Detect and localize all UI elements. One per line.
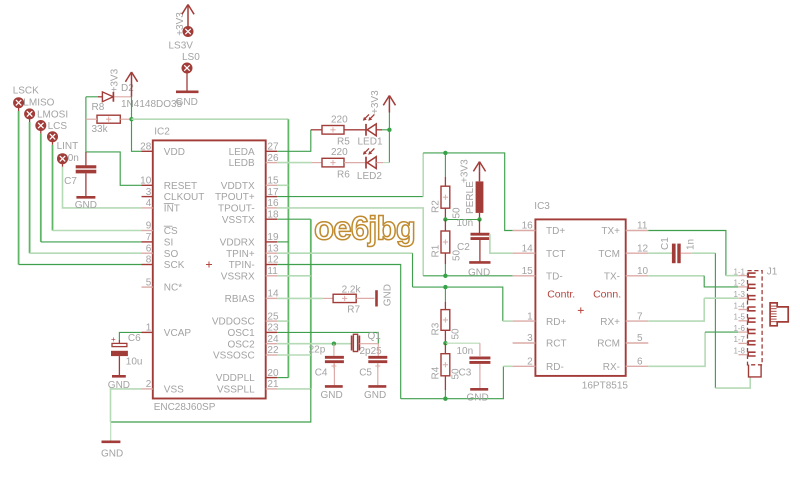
- svg-text:RX+: RX+: [600, 317, 620, 328]
- svg-text:GND: GND: [108, 380, 130, 391]
- wire to main ground: [110, 422, 112, 441]
- svg-text:LS0: LS0: [182, 52, 200, 63]
- svg-text:LEDB: LEDB: [229, 158, 255, 169]
- inductor PERLE ferrite bead: [465, 181, 483, 220]
- svg-text:+: +: [111, 335, 116, 344]
- IC2 pin 5 NC*: [142, 277, 183, 293]
- wire VDDPLL pin20 to rail: [277, 377, 288, 379]
- svg-text:1: 1: [527, 311, 533, 322]
- svg-text:VSSTX: VSSTX: [222, 215, 255, 226]
- node LS0: [182, 52, 200, 73]
- resistor R8 33k: [86, 102, 132, 135]
- resistor R3 50: [431, 287, 462, 343]
- IC2 pin 13 TPIN+: [226, 243, 279, 259]
- svg-text:C5: C5: [359, 368, 372, 379]
- svg-text:VDD: VDD: [164, 147, 185, 158]
- svg-text:GND: GND: [101, 449, 123, 460]
- svg-text:GND: GND: [383, 284, 394, 306]
- svg-text:14: 14: [522, 243, 534, 254]
- wire TPIN+ pin13 to RD+: [277, 253, 513, 321]
- junction C4/OSC2: [332, 342, 336, 346]
- svg-text:VDDRX: VDDRX: [220, 238, 255, 249]
- node LINT: [57, 141, 79, 152]
- svg-text:4: 4: [146, 198, 152, 209]
- svg-text:R5: R5: [337, 137, 350, 148]
- svg-text:5: 5: [637, 333, 643, 344]
- svg-text:IC3: IC3: [534, 201, 550, 212]
- svg-text:10u: 10u: [126, 357, 143, 368]
- svg-text:10n: 10n: [457, 346, 474, 357]
- wire OSC2 pin24: [277, 343, 352, 345]
- svg-text:VSSPLL: VSSPLL: [217, 385, 255, 396]
- IC2 pin 1 VCAP: [142, 323, 192, 339]
- connector J1 pin 1-7: [733, 335, 755, 345]
- connector J1 pin 1-2: [733, 279, 755, 289]
- wire RBIAS pin14 to R7: [277, 297, 323, 299]
- svg-text:TCM: TCM: [598, 249, 620, 260]
- node LSCK: [13, 86, 39, 112]
- ground C3: [467, 389, 489, 403]
- IC2 pin 4 INT: [142, 198, 180, 214]
- IC3 pin 6 RX-: [603, 357, 649, 374]
- connector J1 pin 1-1: [733, 267, 755, 277]
- capacitor C7 value 100n: [57, 153, 79, 164]
- wire VDDTX pin15 to rail: [277, 184, 288, 186]
- wire RX- pin6 to J1 1-6: [648, 332, 738, 366]
- connector J1 pin 1-6: [733, 324, 755, 334]
- connector J1 pin 1-8: [733, 347, 755, 357]
- svg-text:RX-: RX-: [603, 362, 620, 373]
- svg-text:10: 10: [637, 266, 649, 277]
- svg-text:C1: C1: [660, 237, 671, 250]
- junction LED1 anode: [387, 128, 391, 132]
- capacitor C4 22p: [309, 344, 344, 386]
- wire LED2 to +3V3: [383, 162, 389, 164]
- IC3 pin 2 RD-: [513, 357, 564, 374]
- IC3 pin 7 RX+: [600, 311, 648, 328]
- junction R3/R4/C3: [443, 341, 447, 345]
- svg-text:11: 11: [267, 266, 278, 277]
- node LMISO: [23, 98, 54, 123]
- connector J1: [748, 267, 778, 365]
- wire LINT to INT pin 4: [63, 167, 142, 208]
- svg-text:11: 11: [637, 221, 648, 232]
- junction R1 bottom: [443, 274, 447, 278]
- svg-text:LS3V: LS3V: [169, 41, 194, 52]
- svg-text:SCK: SCK: [164, 260, 185, 271]
- svg-text:C6: C6: [128, 333, 141, 344]
- wire +3V3 down to LED2: [388, 130, 390, 163]
- IC2 pin 14 RBIAS: [225, 289, 279, 305]
- IC2 pin 15 VDDTX: [221, 176, 279, 192]
- svg-text:5: 5: [146, 277, 152, 288]
- capacitor C3 10n: [457, 343, 491, 388]
- svg-text:6: 6: [637, 357, 643, 368]
- IC2 pin 7 SI: [142, 232, 174, 248]
- svg-text:6: 6: [146, 243, 152, 254]
- connector J1 pin 1-4: [733, 301, 755, 311]
- node LCS: [48, 121, 68, 145]
- svg-text:TCT: TCT: [546, 249, 565, 260]
- svg-text:VSSRX: VSSRX: [221, 271, 255, 282]
- diode D2 1N4148DO35: [86, 83, 183, 110]
- ground C7: [75, 197, 97, 211]
- IC2 pin 10 RESET: [140, 176, 197, 192]
- svg-text:+3V3: +3V3: [460, 159, 471, 183]
- IC2 pin 24 OSC2: [227, 334, 278, 350]
- ground C2: [468, 262, 491, 278]
- svg-text:TX-: TX-: [604, 272, 620, 283]
- svg-text:C3: C3: [459, 368, 472, 379]
- svg-text:PERLE: PERLE: [465, 181, 476, 214]
- wire TPOUT+ pin17: [277, 153, 513, 231]
- svg-text:ENC28J60SP: ENC28J60SP: [154, 402, 216, 413]
- svg-text:R7: R7: [347, 305, 360, 316]
- IC3 pin 1 RD+: [513, 311, 567, 328]
- ground C6: [108, 376, 130, 391]
- svg-text:VCAP: VCAP: [164, 328, 192, 339]
- svg-text:CS: CS: [164, 226, 178, 237]
- svg-text:NC*: NC*: [164, 283, 182, 294]
- IC3 pin 15 TD-: [513, 266, 563, 283]
- ground C5: [364, 386, 386, 401]
- svg-text:GND: GND: [468, 267, 490, 278]
- svg-text:RD+: RD+: [546, 317, 566, 328]
- svg-text:LINT: LINT: [57, 141, 79, 152]
- IC3 pin 10 TX-: [604, 266, 649, 283]
- svg-text:10n: 10n: [457, 218, 474, 229]
- power +3V3 arrow (D2): [110, 68, 138, 96]
- connector J1 pin 1-3: [733, 290, 755, 300]
- svg-text:28: 28: [140, 142, 152, 153]
- svg-text:TX+: TX+: [601, 226, 620, 237]
- wire VSSPLL pin21: [277, 388, 311, 390]
- svg-text:VDDPLL: VDDPLL: [216, 373, 255, 384]
- svg-text:220: 220: [331, 115, 348, 126]
- transformer IC3 16PT8515 box: [534, 201, 628, 392]
- resistor R7 2.2k: [323, 284, 375, 315]
- svg-text:SI: SI: [164, 238, 173, 249]
- wire VCAP pin1 to C6: [119, 332, 141, 340]
- wire LSCK to SCK pin 8: [19, 111, 142, 265]
- svg-text:50: 50: [451, 328, 462, 340]
- svg-text:RCT: RCT: [546, 339, 567, 350]
- IC3 pin 11 TX+: [601, 221, 648, 238]
- svg-text:1n: 1n: [686, 239, 697, 250]
- svg-text:CLKOUT: CLKOUT: [164, 192, 205, 203]
- wire R2 bottom to ferrite: [445, 219, 479, 221]
- wire LMISO to SO pin 6: [30, 122, 142, 253]
- capacitor C6 10u: [111, 333, 142, 375]
- svg-text:LSCK: LSCK: [13, 86, 39, 97]
- IC2 pin 8 SCK: [142, 255, 185, 271]
- IC2 pin 17 TPOUT+: [215, 187, 279, 203]
- IC2 pin 22 VSSOSC: [213, 345, 279, 361]
- wire LEDA pin27 to R5: [277, 130, 311, 152]
- capacitor C2 10n: [457, 218, 490, 262]
- svg-text:TPIN-: TPIN-: [229, 260, 255, 271]
- svg-text:15: 15: [522, 266, 534, 277]
- svg-text:VSSOSC: VSSOSC: [213, 351, 255, 362]
- wire VSSRX pin11: [277, 275, 311, 277]
- IC2 pin 28 VDD: [140, 142, 185, 158]
- wire TX+ pin11 to J1 1-1: [648, 231, 738, 276]
- node LINT pad: [58, 154, 67, 167]
- wire VSSTX pin18 to GND rail: [277, 219, 311, 389]
- svg-text:GND: GND: [321, 390, 343, 401]
- op-amp IC2 ENC28J60SP box: [153, 127, 266, 414]
- svg-text:GND: GND: [467, 393, 489, 404]
- IC2 pin 2 VSS: [142, 379, 185, 395]
- svg-text:33k: 33k: [92, 124, 109, 135]
- svg-text:J1: J1: [767, 267, 778, 278]
- wire VSSOSC pin22: [277, 354, 311, 356]
- wire LED1 to +3V3: [382, 129, 389, 131]
- resistor R5 220: [311, 115, 366, 148]
- svg-text:R3: R3: [431, 322, 442, 335]
- ground C4: [321, 386, 343, 401]
- svg-text:LED2: LED2: [357, 171, 382, 182]
- IC2 pin 23 OSC1: [227, 323, 278, 339]
- svg-text:GND: GND: [75, 200, 97, 211]
- svg-text:7: 7: [146, 232, 152, 243]
- IC2 pin 9 CS: [142, 221, 179, 237]
- svg-text:1: 1: [146, 323, 152, 334]
- svg-text:+3V3: +3V3: [370, 90, 381, 114]
- svg-text:OSC1: OSC1: [227, 328, 255, 339]
- svg-text:LMISO: LMISO: [23, 98, 54, 109]
- IC2 pin 26 LEDB: [229, 153, 279, 169]
- svg-text:RD-: RD-: [546, 362, 564, 373]
- wire junction to C3: [445, 342, 480, 344]
- connector J1 pin 1-5: [733, 313, 755, 323]
- wire TCT tap: [490, 234, 513, 253]
- svg-text:R6: R6: [337, 169, 350, 180]
- wire LCS to CS pin 9: [53, 145, 142, 231]
- svg-text:1N4148DO35: 1N4148DO35: [121, 99, 183, 110]
- resistor R6 220: [312, 147, 366, 180]
- svg-text:TPIN+: TPIN+: [226, 249, 255, 260]
- IC2 pin 11 VSSRX: [221, 266, 278, 282]
- wire OSC1 pin23: [277, 332, 378, 343]
- node LMOSI: [36, 110, 68, 134]
- capacitor C1 1n: [648, 237, 696, 263]
- IC3 pin 12 TCM: [598, 243, 648, 260]
- capacitor C5 22p: [359, 344, 387, 386]
- wire LEDB pin26 to R6: [277, 162, 312, 164]
- IC3 pin 5 RCM: [597, 333, 648, 350]
- svg-text:INT: INT: [164, 204, 180, 215]
- wire TPIN- pin12 to RD-: [277, 265, 513, 399]
- svg-text:10: 10: [140, 176, 152, 187]
- wire VDDOSC pin25 to rail: [277, 320, 288, 322]
- svg-text:R1: R1: [431, 244, 442, 257]
- svg-text:+3V3: +3V3: [110, 68, 121, 92]
- wire RX+ pin7 to J1 1-3: [648, 298, 738, 321]
- wire LMOSI to SI pin 7: [41, 134, 142, 242]
- svg-text:220: 220: [331, 147, 348, 158]
- IC2 pin 12 TPIN-: [229, 255, 279, 271]
- svg-text:IC2: IC2: [154, 127, 170, 138]
- svg-text:SO: SO: [164, 249, 179, 260]
- svg-text:9: 9: [146, 221, 152, 232]
- ground R7 (rotated): [377, 284, 394, 306]
- svg-text:2: 2: [527, 357, 533, 368]
- LED LED1: [358, 114, 383, 147]
- wire +3V3 rail vertical: [287, 119, 289, 377]
- svg-text:Contr.: Contr.: [547, 289, 575, 301]
- svg-text:50: 50: [452, 207, 463, 219]
- svg-text:Q1: Q1: [368, 331, 382, 342]
- svg-text:C4: C4: [315, 368, 328, 379]
- junction R8/D2/+3V3: [129, 117, 133, 121]
- power +3V3 arrow (ferrite): [460, 159, 486, 183]
- resistor R4 50: [431, 343, 462, 399]
- IC2 pin 27 LEDA: [229, 142, 279, 158]
- wire TCM/C1 to J1 shield: [692, 253, 750, 388]
- svg-text:C7: C7: [64, 176, 77, 187]
- svg-text:R8: R8: [92, 102, 105, 113]
- svg-text:TD-: TD-: [546, 272, 563, 283]
- power +3V3 arrow (LEDs): [370, 90, 396, 130]
- svg-text:TPOUT+: TPOUT+: [215, 192, 255, 203]
- ground LS0: [176, 92, 199, 108]
- svg-text:GND: GND: [176, 97, 198, 108]
- crystal Q1: [352, 331, 382, 352]
- IC2 pin 20 VDDPLL: [216, 368, 279, 384]
- LED LED2: [357, 148, 383, 182]
- junction ferrite bottom: [477, 217, 481, 221]
- svg-text:12: 12: [637, 243, 649, 254]
- svg-text:22p: 22p: [309, 345, 326, 356]
- wire LS0 to GND: [186, 73, 188, 92]
- wire TPOUT- pin16: [277, 208, 513, 276]
- svg-text:7: 7: [637, 311, 643, 322]
- svg-text:LEDA: LEDA: [229, 147, 255, 158]
- svg-text:VDDTX: VDDTX: [221, 181, 255, 192]
- svg-text:OSC2: OSC2: [227, 339, 255, 350]
- IC3 pin 3 RCT: [513, 333, 567, 350]
- svg-text:8: 8: [146, 255, 152, 266]
- svg-text:RBIAS: RBIAS: [225, 294, 255, 305]
- svg-text:TPOUT-: TPOUT-: [218, 204, 255, 215]
- svg-text:3: 3: [527, 333, 533, 344]
- capacitor C7: [64, 152, 96, 196]
- svg-text:RESET: RESET: [164, 181, 197, 192]
- junction R2 bottom: [443, 217, 447, 221]
- svg-text:16PT8515: 16PT8515: [582, 381, 629, 392]
- wire +3V3 to VDD pin 28: [132, 97, 142, 152]
- svg-text:3: 3: [146, 187, 152, 198]
- connector J1 shield hook: [749, 365, 762, 377]
- IC3 pin 14 TCT: [513, 243, 566, 260]
- svg-text:oe6jbg: oe6jbg: [314, 210, 415, 247]
- node LS3V: [169, 27, 194, 52]
- IC2 pin 3 CLKOUT: [142, 187, 205, 203]
- svg-text:VSS: VSS: [164, 385, 184, 396]
- IC2 pin 18 VSSTX: [222, 209, 279, 225]
- junction R2 top: [443, 151, 447, 155]
- svg-text:LMOSI: LMOSI: [37, 110, 68, 121]
- junction R3 top: [443, 285, 447, 289]
- IC2 pin 19 VDDRX: [220, 232, 279, 248]
- svg-text:LED1: LED1: [358, 137, 383, 148]
- svg-text:C2: C2: [457, 242, 470, 253]
- svg-text:VDDOSC: VDDOSC: [212, 317, 255, 328]
- wire RESET net: [86, 97, 142, 186]
- svg-text:2: 2: [146, 379, 152, 390]
- wire GND rail bottom: [111, 389, 311, 422]
- svg-text:R2: R2: [431, 200, 442, 213]
- IC2 pin 25 VDDOSC: [212, 311, 279, 327]
- resistor R1 50: [431, 220, 463, 276]
- ground main: [101, 442, 123, 460]
- IC3 pin 16 TD+: [513, 221, 566, 238]
- resistor R2 50: [431, 153, 463, 220]
- svg-text:TD+: TD+: [546, 226, 565, 237]
- svg-text:LCS: LCS: [48, 121, 68, 132]
- wire TX- pin10 to J1 1-2: [648, 276, 738, 287]
- power +3V3 arrow (top): [175, 5, 194, 36]
- svg-text:16: 16: [522, 221, 534, 232]
- wire VDDRX pin19 to rail: [277, 241, 288, 243]
- svg-text:Conn.: Conn.: [593, 289, 621, 301]
- wire R8 to +3V3 rail: [132, 118, 289, 120]
- wire VSS pin2: [111, 389, 142, 422]
- IC2 pin 16 TPOUT-: [218, 198, 279, 214]
- connector J1 RJ45 jack symbol: [770, 303, 788, 326]
- svg-text:R4: R4: [431, 366, 442, 379]
- svg-text:GND: GND: [364, 390, 386, 401]
- junction R4 bottom: [443, 397, 447, 401]
- IC2 pin 6 SO: [142, 243, 179, 259]
- svg-text:RCM: RCM: [597, 339, 620, 350]
- IC2 pin 21 VSSPLL: [217, 379, 279, 395]
